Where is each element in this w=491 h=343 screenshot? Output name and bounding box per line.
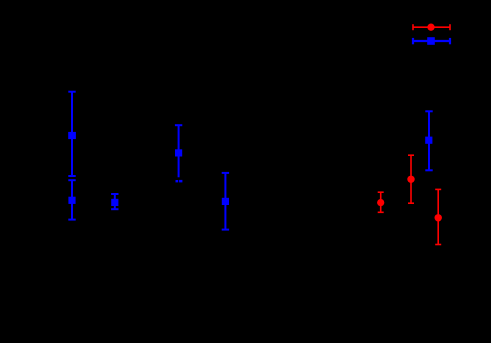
blue square marker 4 <box>175 149 182 156</box>
blue square marker 6 <box>425 137 432 144</box>
legend red errorbar sample <box>413 24 450 30</box>
red errorbar point 3 (x=438.2, y=217.8) <box>435 189 441 244</box>
blue errorbar point 6 (x=429, y=140.2) <box>425 111 432 170</box>
blue square marker 1 <box>68 132 76 139</box>
blue errorbar point 4 (x=178.6, y=152.9) <box>175 125 182 177</box>
legend blue square marker <box>427 37 435 45</box>
blue errorbar point 1 (x=72, y=135.6) <box>68 92 75 176</box>
blue errorbar point 2 (x=72, y=200.3) <box>68 180 75 219</box>
blue square marker 2 <box>68 197 75 204</box>
blue square marker 5 <box>222 198 229 205</box>
blue errorbar point 5 (x=225.4, y=201.4) <box>222 173 229 230</box>
blue lower-limit cap fragments below point 4 <box>176 180 179 182</box>
legend red circle marker <box>427 24 434 31</box>
red circle marker 2 <box>407 176 414 183</box>
red errorbar point 2 (x=411, y=179.3) <box>408 155 414 203</box>
red circle marker 3 <box>435 214 442 221</box>
red errorbar point 1 (x=380.7, y=202.6) <box>378 192 384 212</box>
legend blue errorbar sample <box>413 38 450 44</box>
red circle marker 1 <box>377 199 384 206</box>
blue errorbar point 3 (x=114.8, y=202.4) <box>111 194 118 209</box>
blue square marker 3 <box>111 199 118 206</box>
